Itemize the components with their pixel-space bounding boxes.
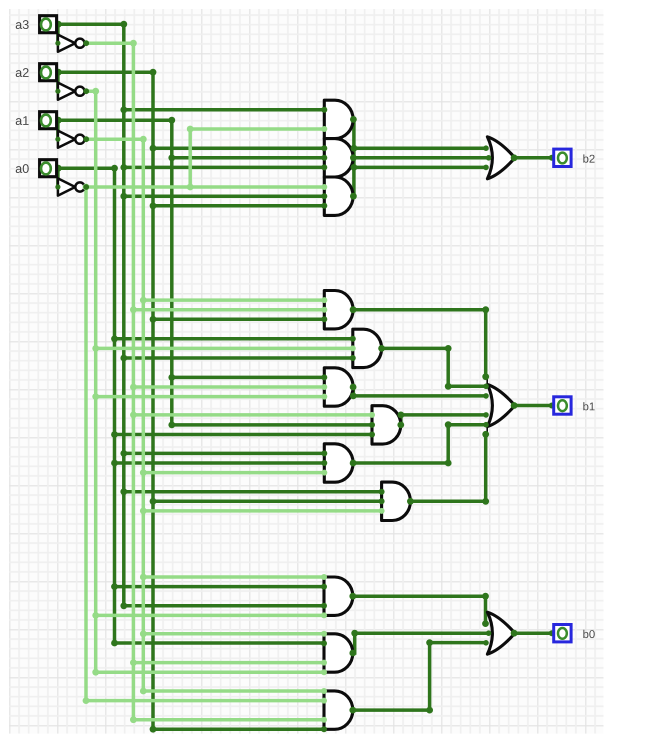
corner a0n bottom [83,697,90,704]
node g1 in2 [321,126,327,132]
wire a3n branch to gC in2 [133,385,324,389]
node or1 in5 [483,412,489,418]
corner gE path2 [445,421,452,428]
wire a2 branch to gF in2 [153,500,382,504]
AND gate UD [372,406,401,444]
node gA in3 [321,316,327,322]
junction a0 at y=587 [111,583,118,590]
input pin a3 [40,16,57,33]
node gB in2 [350,345,356,351]
node g3 in3 [321,203,327,209]
value 0 in pin b1 [558,400,567,411]
corner gH jog [351,630,358,637]
corner a0n up [187,126,194,133]
label a3 [16,20,29,29]
AND gate UG [324,577,353,615]
wire a1 pin to bus [58,120,372,425]
corner gA path [482,306,489,313]
label a1 [16,116,29,125]
wire a1n from NOT3 [85,139,324,691]
junction a1n at y=300 [140,297,147,304]
node gD output [397,422,404,429]
node gH output [349,650,356,657]
wire a2n branch to gC in3 [96,395,325,399]
value 0 in pin a2 [41,67,51,79]
junction a0n up [187,184,194,191]
corner a3 bus bottom [120,602,127,609]
wire a0 branch to gB in1 [115,337,353,341]
node NOT4 input [55,184,60,189]
node or0 in1 [482,620,489,627]
junction a1n at y=634 [140,630,147,637]
AND gate UH [324,634,353,672]
corner a3n top [130,40,137,47]
node NOT3 input [55,137,60,142]
wire a1n branch to gF in3 [143,509,381,513]
node gA in2 [321,307,327,313]
junction a1n at y=473 [140,469,147,476]
wire gD out jog [401,415,486,425]
node gC in2 [321,384,327,390]
wire gH out jog [353,633,489,653]
label b1 [583,402,594,410]
node or0 out [511,630,518,637]
junction a0 at y=434 [111,431,118,438]
NOT gate N2 (a2) [58,83,75,100]
corner a1 bus bottom [168,422,175,429]
node gC in1 [321,374,327,380]
wire a0n branch down [86,187,324,701]
wire a1n branch to gA in1 [143,298,324,302]
node g3 output [350,193,357,200]
wire a3 branch to gB in3 [124,356,353,360]
label b2 [583,154,594,162]
node or1 in1 [482,373,489,380]
output pin b0 [554,625,571,642]
node gG in1 [321,574,327,580]
output pin b1 [554,397,571,414]
corner a1n bottom [140,688,147,695]
AND gate UB [353,329,382,367]
node gC output [350,384,357,391]
node gB in1 [350,336,356,342]
node gD in3 [369,432,375,438]
junction a2n at y=615 [92,612,99,619]
node a0n gateI in2 [321,698,327,704]
wire or0 output [514,631,552,635]
label a0 [16,164,29,173]
wire a0 pin to bus [58,168,324,643]
junction a2n at y=348 [92,345,99,352]
node gA in1 [321,297,327,303]
node NOT2 input [55,89,60,94]
OR gate b2 [487,137,515,179]
node gE in1 [321,450,327,456]
node or1 in3 [483,393,489,399]
node gG in4 [321,612,327,618]
node or0 in2 [486,630,492,636]
junction a0n down [83,184,90,191]
junction a0 at y=463 [111,460,118,467]
value 0 in pin b0 [558,628,567,639]
node g3 in2 [321,193,327,199]
NOT gate N4 (a0) [58,178,75,195]
AND gate UE [324,444,353,482]
node gH in1 [321,631,327,637]
wire a0 pin to NOT4 input [56,168,60,187]
wire a0n from NOT4 to g3 [85,185,324,189]
value 0 in pin b2 [558,153,567,164]
wire a3n from NOT1 [85,43,324,720]
value 0 in pin a0 [41,163,51,175]
junction a2 at y=148 [150,145,157,152]
wire a1n branch to gH in1 [143,632,324,636]
node pin b0 in [549,630,555,636]
wire gF out [410,434,485,501]
input pin a1 [40,112,57,129]
corner a2n top [92,88,99,95]
wire a3 branch to g2 in3 [124,166,324,170]
wire a2 branch to gA in3 [153,318,324,322]
label b0 [583,630,594,638]
junction b2 in3 [351,164,358,171]
wire a3 pin to NOT1 input [56,24,60,43]
wire a0n branch up [190,129,324,187]
OR gate b1 [486,377,488,386]
wire a3 pin to bus [58,24,324,606]
wire b2 or in3 [354,166,486,170]
junction a0 pin output [55,165,62,172]
junction a2n at y=397 [92,393,99,400]
wire b2 or in2 [353,156,489,160]
junction b2 in1 [351,145,358,152]
node or2 in3 [483,165,489,171]
wire a1 pin to NOT3 input [56,120,60,139]
corner gG path [482,593,489,600]
wire a0 branch to gG in2 [115,585,325,589]
node g2 in2 [321,155,327,161]
corner gE path1 [445,460,452,467]
node gE in3 [321,470,327,476]
node gB in3 [350,355,356,361]
wire b2 or in1 [354,146,486,150]
node gG output [349,593,356,600]
junction a3 at y=358 [120,355,127,362]
corner gB path1 [445,345,452,352]
node or2 in1 [483,145,489,151]
wire gG out [353,596,486,623]
corner gI path1 [426,707,433,714]
input pin a0 [40,160,57,177]
junction a2 at y=501 [150,498,157,505]
corner a2 bus top [150,69,157,76]
junction a1 at y=377 [168,374,175,381]
junction a3 at y=196 [120,193,127,200]
junction a1n at y=577 [140,574,147,581]
AND gate UF [382,482,411,520]
corner gC jog [350,393,357,400]
node g1 in1 [321,107,327,113]
corner a2 bus bottom [150,726,157,733]
corner a0 bus top [111,165,118,172]
node N3 output port [83,136,89,142]
AND gate UA [324,291,353,329]
node pin b2 in [549,155,555,161]
node gE output [350,460,357,467]
wire a2n branch to gB in2 [96,347,353,351]
corner gF path [482,498,489,505]
node g2 in1 [321,145,327,151]
node gF in3 [379,508,385,514]
junction a3 pin output [55,21,62,28]
junction a3n at y=415 [130,412,137,419]
wire a3 branch to g1 in1 [124,108,324,112]
node or2 out [511,154,518,161]
wire gB out [382,348,487,386]
node gI output [349,707,356,714]
value 0 in pin a1 [41,115,51,127]
wire a1 branch to g2 in2 [172,156,324,160]
junction a1 at y=158 [168,154,175,161]
node N1 output port [83,40,89,46]
junction a3 at y=492 [120,488,127,495]
node a2n gateH in4 [321,669,327,675]
wire a3n branch to gA in2 [133,308,324,312]
node gE in2 [321,460,327,466]
corner gI path2 [426,639,433,646]
wire a2 branch to g3 in3 [153,204,324,208]
node gF in1 [379,489,385,495]
node NOT1 input [55,41,60,46]
corner gD jog [398,412,405,419]
corner a1n top [140,136,147,143]
wire gE out [353,425,486,463]
label a2 [16,68,29,77]
junction a1n at y=511 [140,508,147,515]
node N4 output port [83,184,89,190]
node a1 gateD in2 [369,422,375,428]
wire a2 pin to NOT2 input [56,72,60,91]
wire a1 branch to gC in1 [172,376,324,380]
OR gate b0 [487,612,515,654]
corner a2n bottom [92,669,99,676]
wire a3 branch to g3 in2 [124,194,324,198]
wire a3 branch to gF in1 [124,490,382,494]
node g2 output [350,154,357,161]
wire gC out jog [353,387,486,396]
node g1 output [350,116,357,123]
node pin b1 in [549,403,555,409]
node or0 in3 [483,640,489,646]
junction a3n at y=663 [130,659,137,666]
node gA output [350,306,357,313]
junction a2 at y=319 [150,316,157,323]
node a2 gateI in4 [321,726,327,732]
junction a3 at y=110 [120,106,127,113]
node gG in2 [321,584,327,590]
AND gate UI [324,691,353,729]
corner a3 bus top [120,21,127,28]
junction a0 at y=339 [111,335,118,342]
node or2 in2 [486,155,492,161]
corner a3n bottom [130,716,137,723]
node or1 in6 [483,422,489,428]
AND gate U1 (a3*a0n) [324,100,353,138]
wire or1 output [514,404,552,408]
wire a2 branch to g2 in1 [153,146,324,150]
junction a3 at y=453 [120,450,127,457]
output pin b2 [554,149,571,166]
AND gate U2 (a2*a1*a3) [324,139,353,177]
wire a3n branch to gH in3 [133,661,324,665]
NOT gate N3 (a1) [58,131,75,148]
wire a2n branch to gG in4 [96,614,324,618]
NOT gate N1 (a3) [58,35,75,52]
node g3 in1 [321,184,327,190]
AND gate UC [324,368,353,406]
wire a0 branch to gD in3 [115,433,373,437]
junction a3n at y=387 [130,384,137,391]
node gH in3 [321,660,327,666]
node gC in3 [321,394,327,400]
value 0 in pin a3 [41,19,51,31]
node N2 output port [83,88,89,94]
node a3n gateI in3 [321,717,327,723]
corner a1 bus top [168,117,175,124]
wire a3 branch to gE in1 [124,452,324,456]
node or1 in7 [482,431,489,438]
junction a3n at y=310 [130,306,137,313]
wire a2 pin to bus [58,72,324,729]
wire or2 output [514,156,552,160]
wire a0 branch to gE in2 [115,461,325,465]
node gB output [378,345,385,352]
corner a0 bus bottom [111,640,118,647]
corner gB path2 [445,383,452,390]
node a1n gateI in1 [321,688,327,694]
AND gate U3 (a0n*a3*a2) [324,177,353,215]
wire gI out [353,643,487,711]
wire gA out [353,310,486,377]
junction a3 at y=167 [120,164,127,171]
node gF in2 [379,498,385,504]
node gF output [407,498,414,505]
wire a3n branch to gD in1 [133,413,372,417]
junction a2 at y=206 [150,202,157,209]
node gD in1 [369,412,375,418]
junction a2 pin output [55,69,62,76]
wire g-outputs vertical [352,119,356,196]
node g2 in3 [321,164,327,170]
node or1 out [511,402,518,409]
wire a1n branch to gE in3 [143,471,324,475]
node a3 gateG in3 [321,603,327,609]
wire a2n from NOT2 [85,91,324,672]
wire a1n branch to gG in1 [143,575,324,579]
node a0 gateH in2 [321,640,327,646]
junction a1 pin output [55,117,62,124]
input pin a2 [40,64,57,81]
node or1 in2 [483,384,489,390]
